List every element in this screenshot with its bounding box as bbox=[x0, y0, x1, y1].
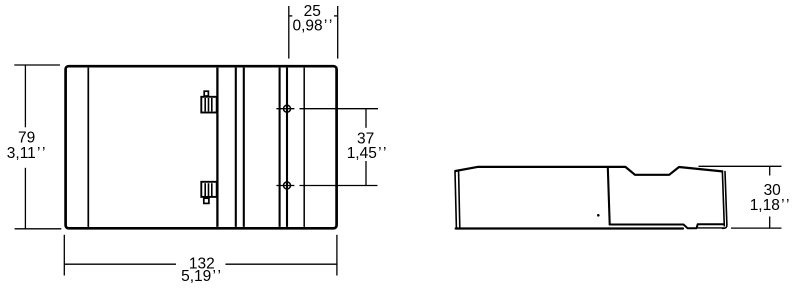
svg-text:3,11’’: 3,11’’ bbox=[7, 145, 46, 162]
svg-text:79: 79 bbox=[18, 129, 35, 146]
svg-text:1,18’’: 1,18’’ bbox=[750, 197, 790, 214]
svg-text:0,98’’: 0,98’’ bbox=[293, 17, 333, 34]
svg-text:5,19’’: 5,19’’ bbox=[181, 268, 221, 285]
svg-text:1,45’’: 1,45’’ bbox=[347, 145, 387, 162]
